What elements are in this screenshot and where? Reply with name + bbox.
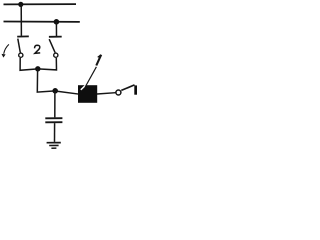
left switch blade <box>18 39 21 53</box>
right-hand switch hinge circle <box>116 90 121 95</box>
right switch fixed contact tick <box>49 36 62 38</box>
wire dot B to fuse 1 <box>55 91 78 94</box>
right switch blade <box>49 39 55 52</box>
junction dot on bus 1 <box>18 2 23 7</box>
left switch lower lead wire <box>20 58 38 70</box>
left switch fixed contact tick <box>17 35 29 37</box>
label 1 <box>96 55 101 66</box>
junction dot on bus 2 <box>54 19 60 25</box>
bus line 1 <box>4 3 77 5</box>
right-hand switch fixed contact bar <box>134 85 137 94</box>
wire from dot A down and right to dot B <box>37 69 55 92</box>
right switch stem wire <box>55 22 57 36</box>
ground bar 2 <box>49 144 58 146</box>
right-hand switch blade <box>121 85 134 91</box>
bus line 2 <box>4 21 80 23</box>
wire fuse to right switch <box>97 93 116 94</box>
capacitor C bottom plate <box>45 121 62 123</box>
right switch lower lead wire <box>38 58 57 70</box>
capacitor upper lead wire <box>54 91 56 118</box>
capacitor C top plate <box>45 117 62 119</box>
capacitor lower lead wire <box>54 123 56 142</box>
right switch hinge circle <box>54 53 58 57</box>
arrow (opening direction) <box>4 44 9 53</box>
leader line of label 1 <box>85 67 96 87</box>
ground bar 1 <box>47 142 61 144</box>
white slash on body <box>81 84 88 90</box>
left switch hinge circle <box>19 53 23 57</box>
fuse/contactor 1 body <box>78 85 97 103</box>
left switch stem wire <box>20 4 22 36</box>
ground bar 3 <box>51 147 56 149</box>
junction dot A <box>35 66 40 71</box>
junction dot B <box>52 88 58 94</box>
label 2 <box>35 45 41 53</box>
